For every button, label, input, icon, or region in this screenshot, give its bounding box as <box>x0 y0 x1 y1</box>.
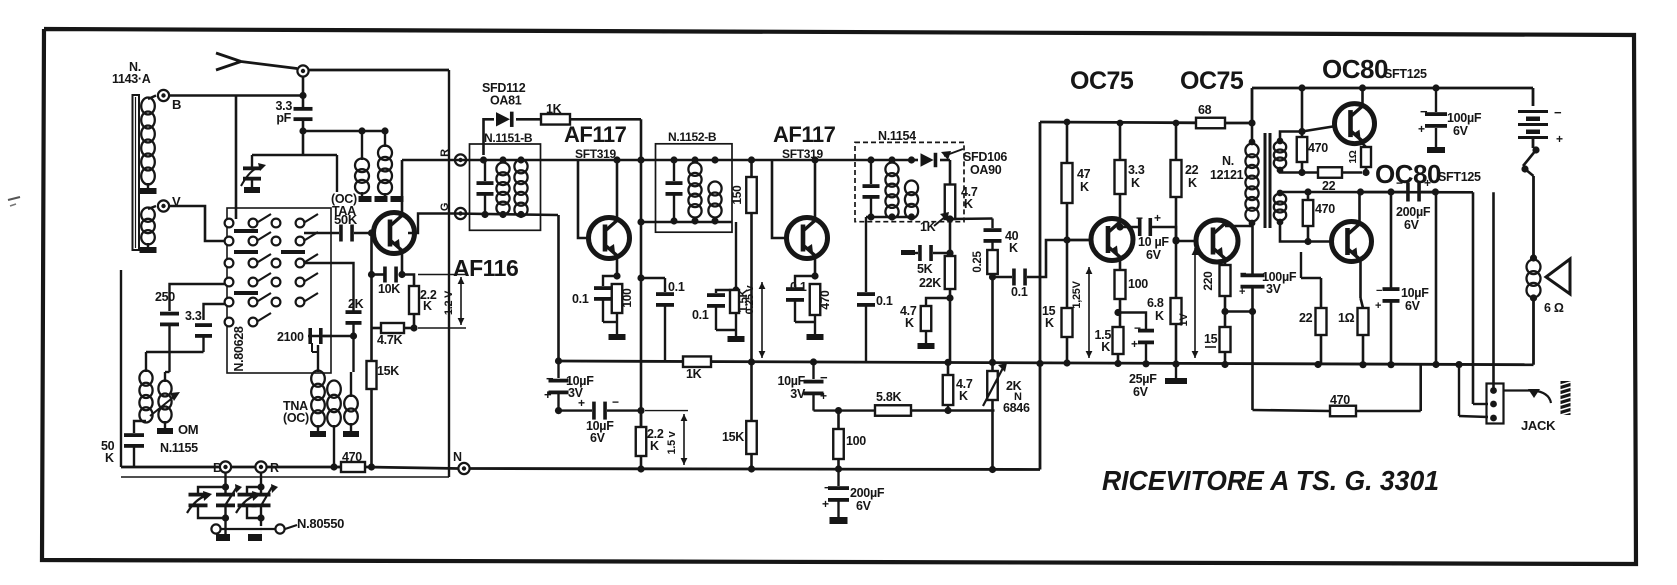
node gang2 open <box>275 524 284 533</box>
svg-text:N.1154: N.1154 <box>878 129 916 143</box>
svg-text:1.5K: 1.5K <box>738 288 750 312</box>
svg-text:SFT125: SFT125 <box>1438 170 1481 184</box>
svg-text:0.1: 0.1 <box>692 308 709 322</box>
capacitor 25uF 6V <box>1118 313 1157 400</box>
wire 15 to busA <box>1221 352 1228 368</box>
label OC75 first <box>1070 67 1134 95</box>
svg-text:N: N <box>453 450 462 464</box>
coil TAA-A <box>355 131 369 194</box>
capacitor 10uF 3V (left) <box>544 361 594 414</box>
wire rail2 riser A <box>1387 188 1394 368</box>
svg-text:6V: 6V <box>1146 248 1162 262</box>
label OC80 first <box>1322 54 1427 84</box>
svg-text:B: B <box>172 97 181 112</box>
wire AF117-1 collector <box>578 156 641 217</box>
ground TAA 2 <box>362 192 388 202</box>
arrow OM tuning <box>150 392 180 416</box>
resistor 22 out <box>1299 252 1327 335</box>
resistor 100 low <box>833 411 866 459</box>
ground e1 <box>603 313 626 340</box>
wire jack contact bottom <box>1459 365 1488 417</box>
resistor 1.5K <box>730 288 750 313</box>
ground 4.7K agc <box>918 331 935 349</box>
svg-text:25µF: 25µF <box>1129 372 1157 386</box>
wire 15K drv to busA <box>1063 337 1070 367</box>
svg-text:0.1: 0.1 <box>876 294 893 308</box>
capacitor 50K coupling <box>334 212 358 242</box>
wire OM tops <box>146 352 204 382</box>
wire trimmer to coils <box>336 155 338 192</box>
ground TNA c <box>343 423 359 437</box>
wire 100 drv node <box>1114 299 1121 327</box>
svg-text:0.1: 0.1 <box>1011 285 1028 299</box>
svg-text:47: 47 <box>1077 167 1091 181</box>
label AF116 <box>453 255 518 281</box>
svg-text:68: 68 <box>1198 103 1212 117</box>
svg-text:6 Ω: 6 Ω <box>1544 301 1564 315</box>
jack arm <box>1503 389 1551 403</box>
label OC75 second <box>1180 67 1244 95</box>
label OM <box>178 422 198 437</box>
label V <box>172 194 181 209</box>
capacitor 0.1 mid <box>790 280 807 294</box>
label TNA (OC) <box>283 399 309 425</box>
svg-text:OM: OM <box>178 422 198 437</box>
svg-text:10µF: 10µF <box>1401 286 1429 300</box>
capacitor N.1152-B tune <box>666 160 683 222</box>
wire 2K/2100 to TNA <box>352 336 354 372</box>
svg-text:6.8: 6.8 <box>1147 296 1164 310</box>
wire OC75-1 base <box>1063 203 1091 308</box>
resistor 22 fb <box>1318 167 1342 193</box>
wire rail upper riser <box>1252 88 1533 123</box>
svg-text:−: − <box>612 395 619 409</box>
label title RICEVITORE <box>1102 465 1439 496</box>
svg-text:R: R <box>439 149 451 157</box>
resistor 1.5K drv <box>1095 327 1124 354</box>
diode SFD106/OA90 <box>912 153 951 167</box>
wire OC80-2 collector <box>1358 192 1361 222</box>
transformer N.12121 primary <box>1245 123 1258 226</box>
svg-text:1,25V: 1,25V <box>1071 280 1083 308</box>
wire 10K left <box>368 271 386 278</box>
wire 1.5K to busA <box>1114 354 1121 367</box>
wire B to gang <box>222 473 229 491</box>
wire antenna feed right <box>308 69 449 72</box>
capacitor 0.1 c2 <box>857 222 893 362</box>
resistor 100 drv <box>1115 270 1149 299</box>
wire 2.2K low to bus2 <box>637 456 644 473</box>
capacitor 100uF 3V <box>1239 226 1297 410</box>
wire N.1154 bottom row <box>866 213 915 222</box>
wire AF117-2 collector <box>772 156 855 217</box>
svg-text:6V: 6V <box>1133 385 1149 399</box>
wire OC75-2 base row <box>1172 197 1196 298</box>
svg-text:50K: 50K <box>334 212 358 227</box>
svg-text:6V: 6V <box>590 431 606 445</box>
svg-text:10K: 10K <box>378 282 400 296</box>
label N.1154 <box>878 129 916 143</box>
wire 100 low to bus2 <box>835 459 842 473</box>
svg-text:K: K <box>1131 176 1140 190</box>
svg-text:−: − <box>1240 268 1246 280</box>
resistor 5.8K <box>875 390 911 416</box>
label B <box>172 97 181 112</box>
label N.80628 (rotated) <box>232 326 246 372</box>
wire sec2 to AF117-2 base <box>752 160 788 238</box>
wire 3.3 down <box>202 336 204 352</box>
capacitor 0.1 c1 <box>637 274 684 361</box>
wire sec to AF117 base <box>541 160 591 238</box>
svg-text:N.1152-B: N.1152-B <box>668 130 717 144</box>
coil N.1154 primary <box>885 163 898 219</box>
wire 2K pot to bus2 <box>989 400 996 473</box>
svg-text:AF117: AF117 <box>564 122 627 147</box>
ground TAA 1 <box>359 196 372 202</box>
svg-text:100: 100 <box>846 434 866 448</box>
wire AF117-2 emitter <box>811 259 818 280</box>
wire 2.2K bottom <box>410 314 417 332</box>
svg-text:−: − <box>1554 105 1562 120</box>
svg-text:SFT125: SFT125 <box>1384 67 1427 81</box>
speaker cone <box>1546 259 1570 294</box>
resistor 2.2K low <box>636 411 664 456</box>
label OC80 second <box>1375 159 1481 189</box>
resistor 15 out <box>1204 327 1231 352</box>
resistor 1ohm e <box>1348 147 1371 167</box>
svg-text:AF116: AF116 <box>453 255 518 281</box>
resistor 150 <box>730 156 757 213</box>
label N.1155 <box>160 441 198 455</box>
capacitor 10uF 3V (right) <box>777 358 828 410</box>
label N.1152-B <box>668 130 717 144</box>
wire bottom bus2 right <box>470 469 1040 470</box>
jack socket <box>1487 384 1504 424</box>
svg-text:K: K <box>959 389 968 403</box>
svg-text:1Ω: 1Ω <box>1338 311 1355 325</box>
diode SFD112/OA81 <box>484 112 542 155</box>
trimmer C-ant <box>252 484 279 522</box>
svg-text:AF117: AF117 <box>773 122 836 147</box>
wire 22K to busA <box>946 289 953 362</box>
main bus A <box>559 361 1534 365</box>
wire antenna down <box>302 77 305 110</box>
svg-text:G: G <box>439 203 451 211</box>
battery 6V <box>1518 88 1563 148</box>
wire OC80-1 emitter <box>1363 144 1367 148</box>
label (OC) TAA <box>331 192 357 218</box>
svg-text:1V: 1V <box>1178 313 1190 327</box>
svg-text:−: − <box>1396 176 1403 190</box>
coil TNA c <box>344 372 358 425</box>
resistor 4.7K (AF116) <box>372 323 415 347</box>
resistor 47K <box>1062 119 1091 203</box>
svg-text:470: 470 <box>342 450 362 464</box>
ground b2 <box>716 313 745 342</box>
antenna <box>216 53 297 70</box>
resistor 15K (AF116) <box>367 328 400 389</box>
capacitor 0.1 e1 <box>572 276 617 322</box>
svg-text:100: 100 <box>620 288 634 308</box>
capacitor N.1151-B tune <box>477 160 494 215</box>
capacitor 0.1 b2 <box>707 222 740 330</box>
svg-text:OC75: OC75 <box>1180 67 1244 95</box>
resistor 22K drv <box>1171 120 1199 197</box>
svg-text:N.1155: N.1155 <box>160 441 198 455</box>
capacitor N.1154 tune <box>863 160 880 217</box>
ground TNA a <box>310 425 326 437</box>
svg-text:22: 22 <box>1299 311 1313 325</box>
wire 15K low to bus2 <box>748 454 755 473</box>
wire N.1151-B top row <box>455 156 541 163</box>
wire N.1151-B bottom row <box>455 211 558 218</box>
wire OC75-1 emitter <box>1119 260 1122 270</box>
svg-text:K: K <box>105 451 114 465</box>
ground e2 <box>795 315 824 340</box>
wire AF116 emitter <box>398 254 405 279</box>
top rail <box>1040 121 1196 125</box>
transistor AF117 second <box>787 218 828 259</box>
resistor 470 (bus) <box>334 450 365 472</box>
wire primary bottom <box>1249 220 1252 226</box>
svg-text:K: K <box>905 316 914 330</box>
svg-text:200µF: 200µF <box>1396 205 1431 219</box>
wire V to switch <box>168 206 225 241</box>
transistor OC75 second <box>1196 220 1238 262</box>
wire OC80-2 emitter <box>0 0 1 1</box>
svg-text:250: 250 <box>155 290 175 304</box>
svg-text:3V: 3V <box>790 387 806 401</box>
ferrite rod N.1143-A <box>133 95 140 250</box>
wire 250 to coil <box>168 325 170 372</box>
transformer N.12121 secondary bottom <box>1274 190 1286 226</box>
variable capacitor C-osc <box>187 487 226 518</box>
resistor 1K busA <box>683 356 711 381</box>
node gang1 open <box>211 524 220 533</box>
wire gang2 link <box>220 518 276 529</box>
resistor 22K det <box>919 256 955 290</box>
svg-text:(OC): (OC) <box>283 411 309 425</box>
wire bus to N terminal <box>365 463 458 470</box>
resistor 470 e2 <box>810 284 832 315</box>
svg-text:SFD106: SFD106 <box>963 150 1007 164</box>
svg-text:12121: 12121 <box>1210 168 1244 182</box>
svg-text:−: − <box>546 371 554 386</box>
IF transformer N.1151-B box <box>470 144 541 230</box>
wire 470 row right riser <box>1356 365 1421 412</box>
wire switch to 50K <box>304 232 339 235</box>
svg-text:K: K <box>1009 241 1018 255</box>
terminal R mid <box>439 149 466 166</box>
wire OC80-1 collector <box>1359 84 1366 103</box>
svg-text:RICEVITORE A TS. G. 3301: RICEVITORE A TS. G. 3301 <box>1102 465 1439 496</box>
label 1.25V annotation <box>1071 267 1092 358</box>
resistor 2.2K <box>402 275 437 315</box>
capacitor 2K <box>304 263 364 325</box>
capacitor 10uF 3V first <box>555 357 562 364</box>
IF transformer N.1154 box <box>855 142 964 221</box>
svg-text:N.1151-B: N.1151-B <box>484 131 533 145</box>
wire 6.8K to busA <box>1172 324 1179 368</box>
ground gang2 <box>248 518 262 541</box>
label SFD112 OA81 <box>482 81 526 108</box>
speaker coil <box>1527 254 1541 301</box>
wire rail to transformer <box>1225 119 1256 126</box>
svg-text:15K: 15K <box>722 430 744 444</box>
label AF117 second <box>773 122 836 161</box>
wire 220 node to 100uF <box>1221 308 1256 315</box>
wire 1K to feed <box>570 119 641 427</box>
coil OM b <box>158 381 171 423</box>
capacitor 5K <box>901 245 950 276</box>
coil OM a <box>139 370 152 422</box>
wire N.1152-B bottom row <box>637 217 732 225</box>
wire rail2 riser C <box>1473 192 1488 404</box>
transistor OC80 second <box>1332 222 1372 262</box>
svg-text:22K: 22K <box>919 276 941 290</box>
trimmer capacitor <box>241 155 266 193</box>
svg-text:1K: 1K <box>920 220 936 234</box>
svg-text:10µF: 10µF <box>777 374 805 388</box>
variable capacitor C-ant <box>236 487 261 518</box>
svg-text:0.1: 0.1 <box>790 280 807 294</box>
svg-text:OC75: OC75 <box>1070 67 1134 95</box>
svg-text:15K: 15K <box>377 364 399 378</box>
coil N.1151-B primary <box>496 163 509 215</box>
resistor 4.7K low <box>943 359 973 411</box>
wire 0.25 to busA <box>989 273 996 362</box>
svg-text:B: B <box>213 461 222 475</box>
resistor 470 second <box>1303 192 1336 226</box>
coil N.1154 secondary <box>905 180 918 218</box>
capacitor 0.1 e2 <box>692 276 815 322</box>
resistor 4.7K det <box>945 160 978 219</box>
svg-text:JACK: JACK <box>1521 418 1556 433</box>
svg-text:470: 470 <box>1315 202 1335 216</box>
label 1.2V annotation <box>418 275 466 329</box>
wire 15K to bus <box>370 389 373 467</box>
wire 0.1 to OC75 base <box>1027 240 1090 277</box>
svg-text:−: − <box>1376 285 1382 297</box>
node antenna junction <box>297 65 308 76</box>
svg-text:0.1: 0.1 <box>572 292 589 306</box>
svg-text:1K: 1K <box>686 367 702 381</box>
label 6 ohm <box>1544 301 1564 315</box>
capacitor 10uF interstage <box>1120 211 1180 262</box>
capacitor 50K <box>101 421 146 467</box>
wire jack contact mid <box>0 0 1 1</box>
switch box N.80628 <box>227 208 331 373</box>
capacitor 40K <box>950 219 1019 256</box>
svg-text:K: K <box>964 197 973 211</box>
svg-text:K: K <box>1155 309 1164 323</box>
label AF117 first <box>564 122 627 161</box>
transistor OC75 first <box>1091 219 1133 261</box>
capacitor 3.3pF <box>294 107 313 121</box>
wire trimmer row <box>252 154 337 157</box>
svg-text:2100: 2100 <box>277 330 304 344</box>
ground below busA <box>1165 364 1187 384</box>
label N.1151-B <box>484 131 533 145</box>
svg-text:6V: 6V <box>1405 299 1421 313</box>
label 3.3pF <box>276 99 293 125</box>
wire B to switch <box>168 96 303 220</box>
svg-text:N.80628: N.80628 <box>232 326 246 372</box>
jack plug <box>1561 381 1571 415</box>
capacitor 10uF 6V out <box>1375 285 1429 313</box>
terminal G mid <box>439 203 466 219</box>
svg-text:−: − <box>1136 211 1143 225</box>
IF transformer N.1152-B box <box>656 144 733 232</box>
terminal R bottom <box>255 461 279 475</box>
wire OC75-2 emitter <box>1224 262 1227 266</box>
label 1.5V annotation <box>645 411 688 465</box>
switch bars <box>234 229 305 295</box>
wire TAA row <box>303 127 389 134</box>
svg-text:470: 470 <box>818 290 832 310</box>
switch power <box>1521 146 1539 256</box>
capacitor 200uF 6V low <box>822 469 885 524</box>
svg-text:5.8K: 5.8K <box>876 390 901 404</box>
svg-text:+: + <box>1375 300 1381 312</box>
svg-text:N.: N. <box>1222 154 1234 168</box>
ground coil V <box>140 243 157 253</box>
label N.12121 <box>1210 154 1244 182</box>
label 1K arrow <box>920 212 949 234</box>
wire 22 out to busA <box>1320 335 1323 365</box>
wire 470-1 bottom <box>1301 162 1304 173</box>
svg-text:150: 150 <box>730 185 744 205</box>
svg-text:6V: 6V <box>856 499 872 513</box>
capacitor 250 <box>155 284 225 326</box>
capacitor 10K <box>378 267 400 297</box>
svg-text:K: K <box>1045 316 1054 330</box>
resistor 6.8K <box>1147 296 1182 324</box>
switch wafer 1 contacts <box>225 214 271 326</box>
capacitor 2100 <box>277 328 354 344</box>
svg-text:−: − <box>824 480 832 495</box>
svg-text:4.7K: 4.7K <box>377 333 402 347</box>
ground coil B <box>140 183 157 194</box>
terminal B bottom <box>213 461 231 475</box>
svg-text:5K: 5K <box>917 262 933 276</box>
coil N.1152-B secondary <box>708 182 721 218</box>
transistor AF117 first <box>589 218 630 259</box>
svg-text:+: + <box>544 387 552 402</box>
wire 150 to busA <box>750 213 753 362</box>
svg-text:100: 100 <box>1128 277 1148 291</box>
svg-text:K: K <box>1080 180 1089 194</box>
wire rail2 riser B <box>1432 188 1440 368</box>
svg-text:3.3: 3.3 <box>1128 163 1145 177</box>
resistor 220 <box>1201 265 1231 296</box>
svg-text:OA81: OA81 <box>490 94 522 108</box>
wire N.1151 bottom to busA <box>557 215 560 361</box>
trimmer C-osc <box>216 484 242 522</box>
resistor 1ohm out <box>1338 308 1369 335</box>
transformer N.12121 secondary top <box>1274 138 1286 174</box>
wire bus2 up to rail <box>1036 122 1043 470</box>
svg-text:−: − <box>1134 321 1141 335</box>
wire sec-bot to OC80-2 base <box>1280 222 1333 242</box>
svg-text:220: 220 <box>1201 271 1215 291</box>
coil N.1151-B secondary <box>514 160 527 217</box>
svg-text:+: + <box>1418 122 1425 136</box>
wire 220 node <box>1224 296 1227 327</box>
label 0.25V annotation <box>744 282 765 358</box>
wire det node <box>946 215 953 256</box>
svg-text:1Ω: 1Ω <box>1348 150 1359 163</box>
